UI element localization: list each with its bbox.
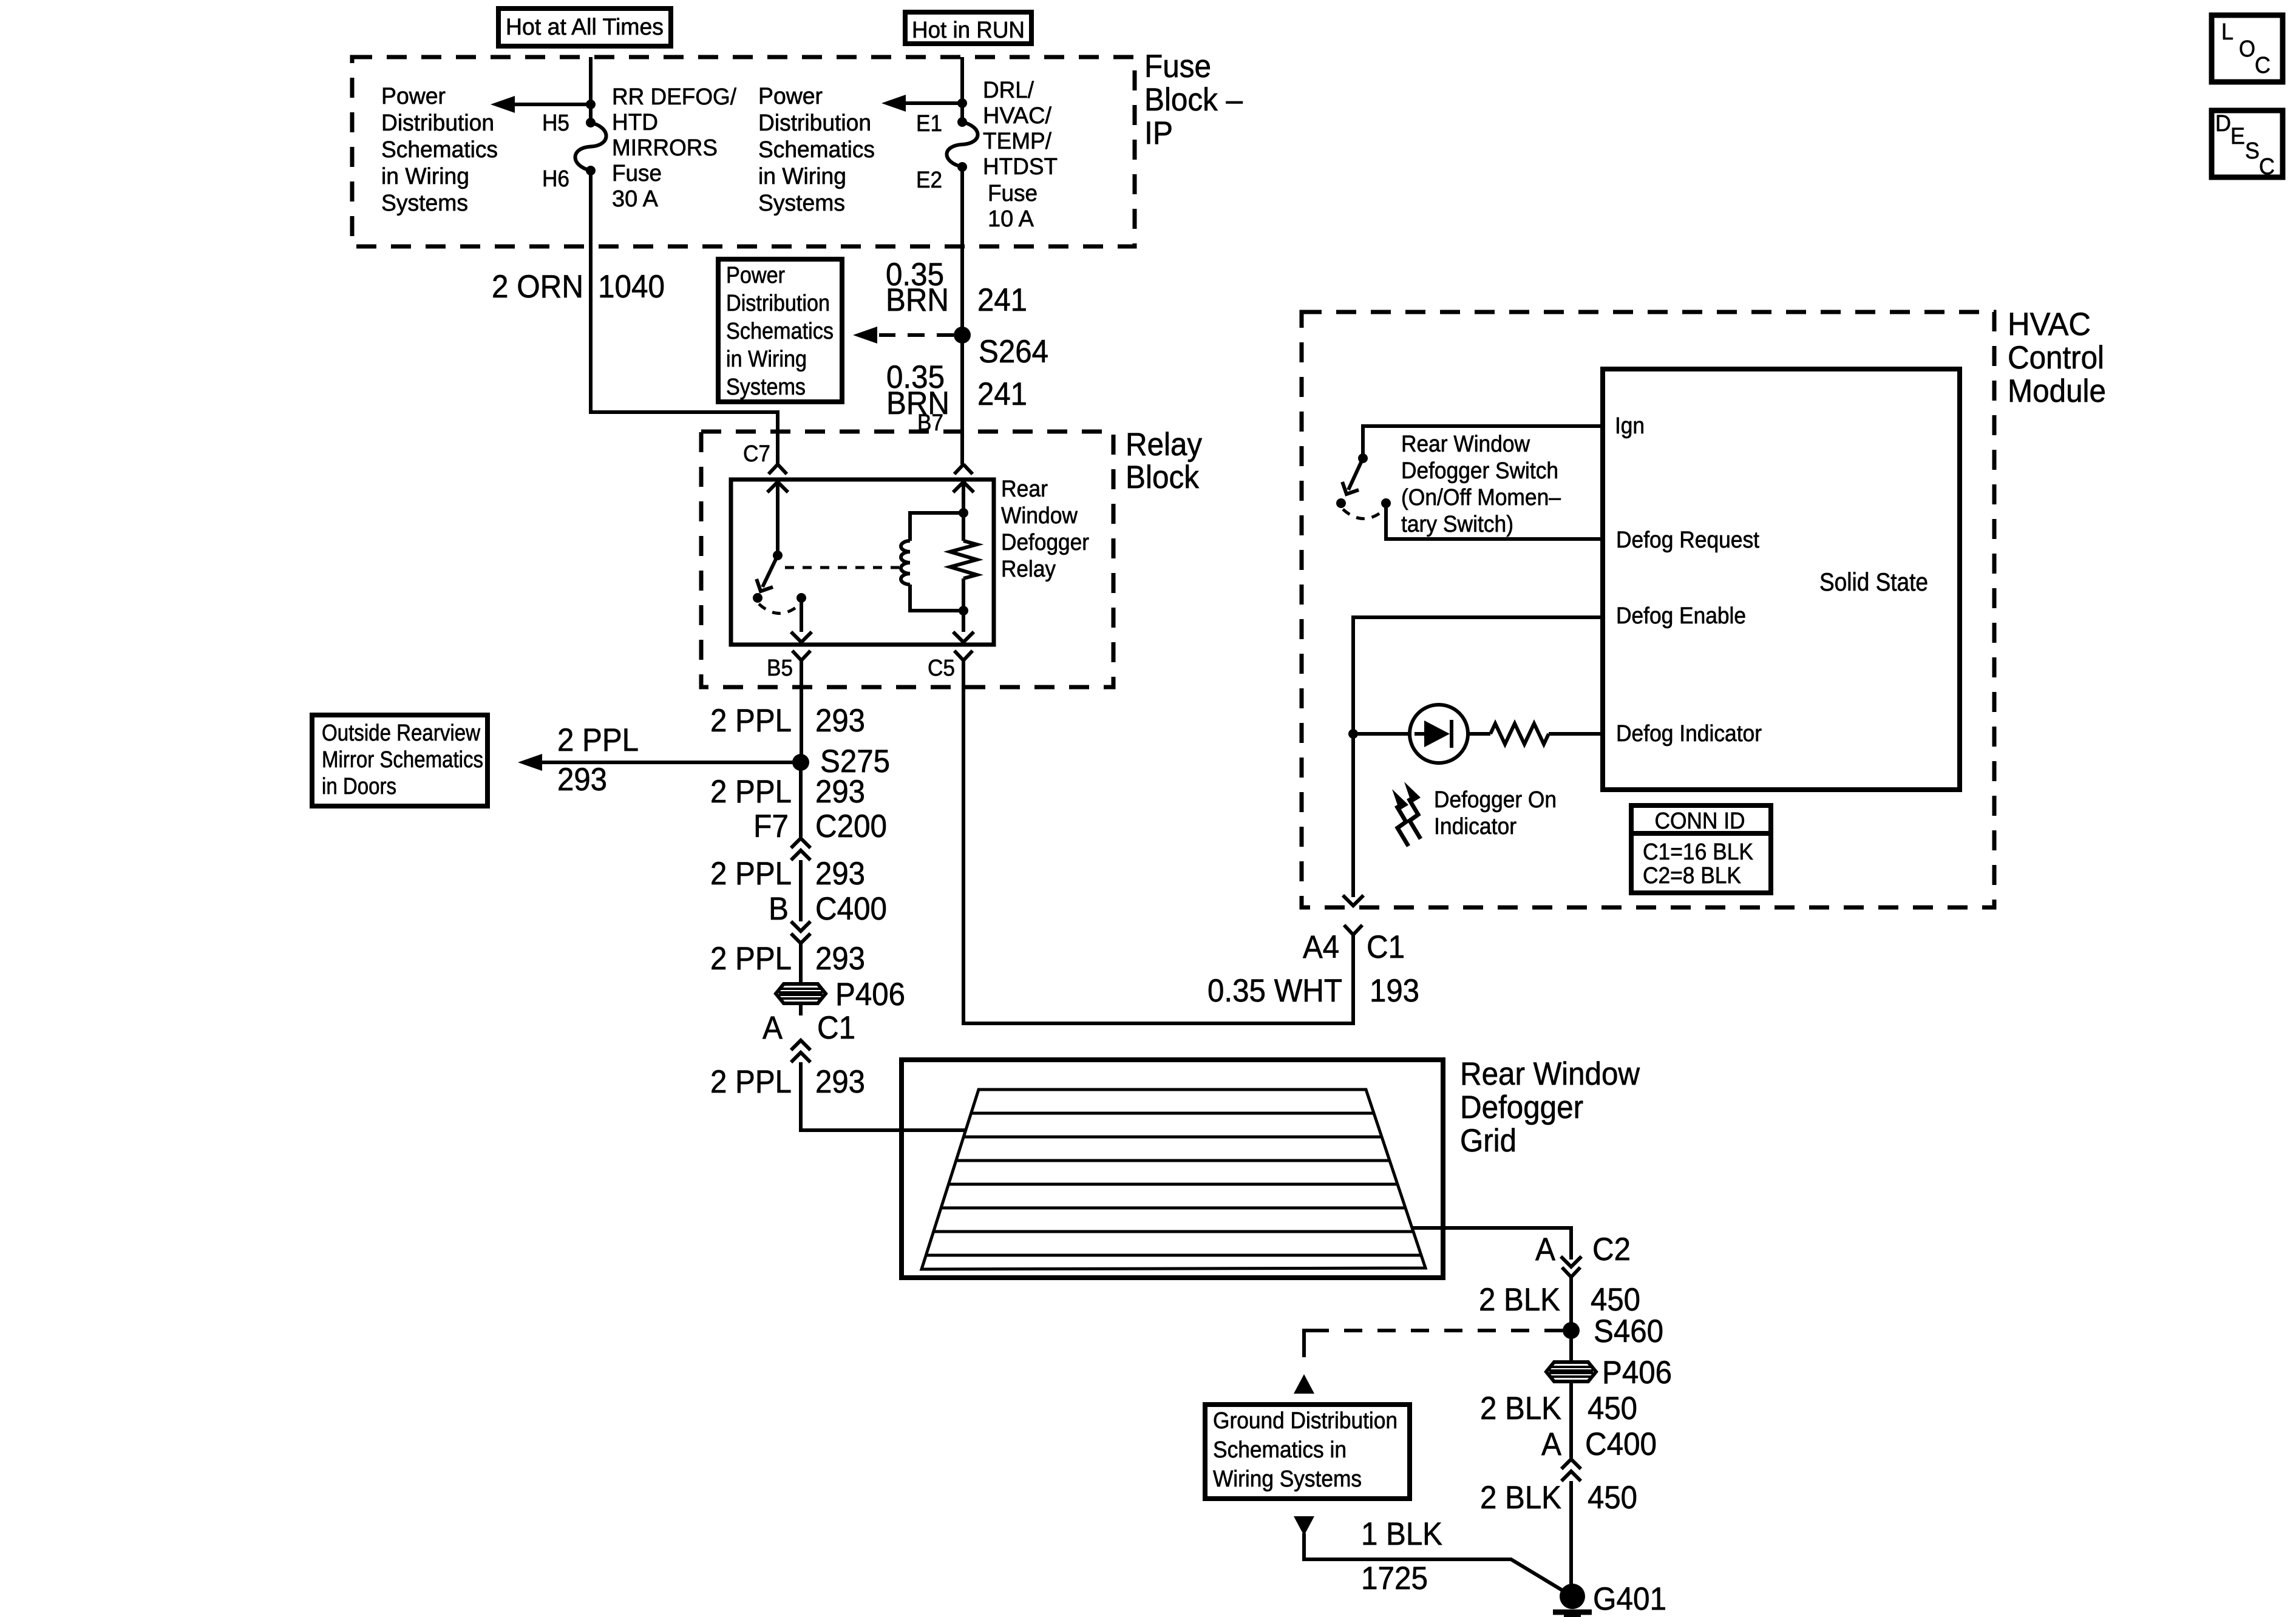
- connector C200: [791, 838, 810, 860]
- arrow out of relay at C5: [953, 611, 974, 642]
- svg-text:Relay: Relay: [1126, 427, 1202, 463]
- svg-text:B: B: [769, 891, 789, 927]
- connector C400: [791, 921, 810, 943]
- splice S275: [792, 754, 809, 771]
- arrow out of ground distribution reference: [1294, 1516, 1314, 1536]
- svg-text:2 PPL: 2 PPL: [710, 774, 792, 810]
- svg-text:O: O: [2239, 36, 2255, 62]
- svg-text:1725: 1725: [1361, 1561, 1428, 1596]
- label C200: [815, 808, 887, 844]
- label 2 BLK (1): [1479, 1282, 1560, 1318]
- label 2 PPL (branch): [557, 722, 639, 758]
- relay switch arm: [753, 555, 778, 595]
- pin E1: [916, 111, 942, 137]
- note text: Power Distribution Schematics in Wiring Systems (middle): [758, 84, 875, 216]
- dashed arrow from S264 to Power Distribution box: [853, 327, 954, 344]
- svg-text:Rear Window: Rear Window: [1401, 432, 1530, 457]
- arrow out of HVAC at A4: [1343, 895, 1364, 906]
- svg-text:Grid: Grid: [1460, 1123, 1517, 1159]
- svg-text:HVAC/: HVAC/: [983, 103, 1051, 129]
- relay coil junction (bottom): [959, 606, 968, 615]
- pin A4: [1303, 929, 1339, 965]
- wire from Hot at All Times into fuse block: [589, 57, 593, 104]
- pin A (C400 right): [1541, 1426, 1562, 1462]
- arrow to Power Distribution Schematics (middle): [881, 95, 959, 112]
- relay switch contact (to B5): [796, 593, 806, 603]
- label 2 PPL (3): [710, 856, 792, 892]
- svg-text:Solid State: Solid State: [1819, 568, 1928, 596]
- svg-text:H5: H5: [542, 110, 569, 136]
- label Rear Window Defogger Relay: [1001, 476, 1089, 582]
- svg-text:C400: C400: [1585, 1426, 1657, 1462]
- svg-text:Defog Enable: Defog Enable: [1616, 603, 1746, 629]
- relay K1 box: [731, 480, 994, 645]
- svg-text:293: 293: [815, 856, 865, 892]
- svg-text:Module: Module: [2008, 373, 2106, 409]
- wire through P406 (right): [1569, 1362, 1573, 1396]
- svg-text:Power: Power: [726, 263, 785, 288]
- relay coil: [901, 513, 961, 611]
- svg-text:10 A: 10 A: [988, 206, 1034, 232]
- svg-text:in Wiring: in Wiring: [758, 164, 846, 189]
- pin H5: [542, 110, 569, 136]
- ground G401: [1553, 1584, 1592, 1616]
- splice S264: [954, 327, 971, 344]
- pass-through grommet P406 (left): [776, 984, 826, 1003]
- svg-text:Defogger Switch: Defogger Switch: [1401, 458, 1558, 484]
- fuse F2 text: DRL/ HVAC/ TEMP/ HTDST Fuse 10 A: [983, 78, 1058, 232]
- relay actuation dashed link: [785, 566, 899, 569]
- label 0.35 WHT: [1207, 973, 1342, 1009]
- svg-text:C1: C1: [1367, 929, 1405, 965]
- fuse F2: DRL/HVAC/TEMP/HTDST Fuse 10 A: [947, 103, 978, 172]
- pin H6: [542, 166, 569, 192]
- svg-text:A4: A4: [1303, 929, 1339, 965]
- wire C1 to grid: [801, 1062, 966, 1130]
- label Fuse Block - IP: [1144, 49, 1243, 151]
- svg-text:450: 450: [1591, 1282, 1640, 1318]
- svg-text:in Doors: in Doors: [322, 774, 396, 799]
- Ign wire: [1363, 426, 1603, 454]
- connector at C2: [1562, 1267, 1580, 1277]
- svg-text:Defog Indicator: Defog Indicator: [1616, 721, 1762, 747]
- svg-text:E: E: [2230, 124, 2245, 149]
- svg-text:Defogger: Defogger: [1001, 530, 1089, 555]
- wire grid to C2: [1412, 1228, 1571, 1259]
- svg-text:Block –: Block –: [1144, 82, 1243, 118]
- pin label Ign: [1615, 413, 1645, 439]
- label circuit 193: [1370, 973, 1419, 1009]
- svg-text:Rear: Rear: [1001, 476, 1048, 502]
- svg-text:E1: E1: [916, 111, 942, 137]
- connector C400 (right): [1561, 1459, 1581, 1481]
- junction at defog indicator: [1348, 729, 1358, 739]
- svg-text:193: 193: [1370, 973, 1419, 1009]
- label 2 PPL (4): [710, 941, 792, 977]
- wire C2 to S460: [1569, 1277, 1573, 1331]
- defogger switch pivot: [1358, 453, 1368, 463]
- label S460: [1594, 1314, 1663, 1349]
- label S264: [979, 334, 1048, 370]
- svg-text:Control: Control: [2008, 340, 2104, 376]
- label 293 (3): [815, 856, 865, 892]
- defogger switch contact (left): [1336, 498, 1346, 508]
- svg-text:Hot in RUN: Hot in RUN: [912, 18, 1025, 43]
- svg-text:450: 450: [1588, 1480, 1637, 1516]
- wire 1040 from H6 to relay C7: [591, 171, 778, 464]
- defogger switch arm: [1339, 458, 1363, 498]
- pin C5: [928, 656, 955, 681]
- svg-text:2 BLK: 2 BLK: [1479, 1282, 1560, 1318]
- pin B7: [917, 410, 943, 436]
- label P406 (right): [1602, 1355, 1672, 1391]
- svg-text:293: 293: [557, 762, 607, 798]
- svg-text:(On/Off Momen–: (On/Off Momen–: [1401, 485, 1561, 510]
- pin B (C400): [769, 891, 789, 927]
- label P406 (left): [835, 977, 905, 1012]
- svg-text:E2: E2: [916, 168, 942, 193]
- label C1 (A4): [1367, 929, 1405, 965]
- svg-text:H6: H6: [542, 166, 569, 192]
- svg-text:A: A: [763, 1010, 783, 1046]
- svg-text:Ign: Ign: [1615, 413, 1645, 439]
- DESC reference box: [2212, 110, 2283, 180]
- svg-text:Distribution: Distribution: [381, 110, 494, 136]
- svg-text:C: C: [2255, 53, 2271, 78]
- label C400 (right): [1585, 1426, 1657, 1462]
- label C2: [1592, 1232, 1631, 1267]
- Defog Request wire: [1386, 503, 1603, 539]
- svg-text:2 BLK: 2 BLK: [1480, 1480, 1561, 1516]
- svg-text:293: 293: [815, 941, 865, 977]
- LOC reference box: [2212, 15, 2283, 82]
- fuse F1: RR DEFOG/HTD MIRRORS Fuse 30 A: [576, 104, 606, 175]
- defogger on indicator lamp symbol: [1392, 782, 1421, 846]
- svg-text:30 A: 30 A: [612, 186, 659, 212]
- Fuse Block - IP dashed box: [352, 57, 1135, 246]
- svg-text:A: A: [1535, 1232, 1556, 1267]
- svg-text:1040: 1040: [598, 269, 665, 305]
- svg-text:IP: IP: [1144, 115, 1173, 151]
- relay resistor: [950, 513, 977, 611]
- svg-text:Systems: Systems: [381, 191, 468, 216]
- junction at E1 feed: [957, 98, 967, 108]
- fuse F1 text: RR DEFOG/ HTD MIRRORS Fuse 30 A: [612, 84, 736, 212]
- svg-text:C7: C7: [743, 441, 770, 467]
- Defog Enable wire: [1353, 617, 1603, 734]
- svg-text:0.35 WHT: 0.35 WHT: [1207, 973, 1342, 1009]
- label Relay Block: [1126, 427, 1202, 495]
- svg-text:RR DEFOG/: RR DEFOG/: [612, 84, 736, 110]
- svg-text:1 BLK: 1 BLK: [1361, 1516, 1442, 1552]
- label circuit 1725: [1361, 1561, 1428, 1596]
- label 293 (1): [815, 703, 865, 739]
- label 2 PPL (1): [710, 703, 792, 739]
- svg-text:Mirror Schematics: Mirror Schematics: [322, 747, 483, 773]
- svg-text:C2: C2: [1592, 1232, 1631, 1267]
- svg-text:HTD: HTD: [612, 110, 658, 135]
- wire S275 to C200: [799, 762, 803, 837]
- wire through P406: [799, 983, 803, 1015]
- label Solid State: [1819, 568, 1928, 596]
- label 2 PPL (5): [710, 1064, 792, 1100]
- svg-text:Schematics: Schematics: [726, 319, 834, 344]
- svg-text:Relay: Relay: [1001, 557, 1056, 582]
- pin label Defog Indicator: [1616, 721, 1762, 747]
- svg-text:C1: C1: [817, 1010, 855, 1046]
- wire B5 to S275: [800, 660, 803, 762]
- svg-text:Outside Rearview: Outside Rearview: [322, 720, 480, 746]
- label 2 BLK (3): [1480, 1480, 1561, 1516]
- arrow into ground distribution reference: [1294, 1374, 1314, 1394]
- label 450 (2): [1588, 1391, 1637, 1426]
- svg-text:S460: S460: [1594, 1314, 1663, 1349]
- svg-text:B7: B7: [917, 410, 943, 436]
- pin E2: [916, 168, 942, 193]
- svg-text:C200: C200: [815, 808, 887, 844]
- svg-text:S264: S264: [979, 334, 1048, 370]
- svg-text:2 ORN: 2 ORN: [492, 269, 583, 305]
- label circuit 241 (lower): [977, 376, 1027, 412]
- connector at C7: [769, 464, 787, 474]
- svg-text:2 PPL: 2 PPL: [557, 722, 639, 758]
- svg-text:Power: Power: [381, 84, 446, 109]
- label 1 BLK: [1361, 1516, 1442, 1552]
- svg-text:Rear Window: Rear Window: [1460, 1056, 1640, 1092]
- wire 193 from C5 to A4: [963, 660, 1353, 1023]
- label 293 (2): [815, 774, 865, 810]
- wire defog enable to A4: [1351, 734, 1355, 897]
- label 0.35 BRN (lower): [886, 359, 949, 421]
- label C400: [815, 891, 887, 927]
- relay switch contact (NO left): [753, 593, 763, 603]
- HVAC Control Module dashed box: [1302, 312, 1994, 907]
- svg-text:Schematics: Schematics: [758, 137, 875, 163]
- svg-text:C5: C5: [928, 656, 955, 681]
- label 450 (3): [1588, 1480, 1637, 1516]
- svg-text:MIRRORS: MIRRORS: [612, 135, 718, 161]
- svg-text:Power: Power: [758, 84, 823, 109]
- svg-text:Distribution: Distribution: [758, 110, 871, 136]
- relay switch pivot: [773, 551, 783, 560]
- svg-text:Hot at All Times: Hot at All Times: [506, 15, 664, 40]
- svg-text:Fuse: Fuse: [612, 161, 662, 186]
- Rear Window Defogger Grid box: [902, 1060, 1443, 1278]
- pin F7: [753, 808, 789, 844]
- label HVAC Control Module: [2008, 307, 2106, 409]
- connector at B7: [954, 464, 973, 474]
- wire S460 to P406: [1569, 1331, 1573, 1362]
- svg-text:in Wiring: in Wiring: [381, 164, 469, 189]
- relay coil junction (top): [959, 508, 968, 518]
- svg-text:Systems: Systems: [758, 191, 845, 216]
- svg-text:in Wiring: in Wiring: [726, 347, 807, 372]
- wire 1725 to G401: [1304, 1533, 1569, 1595]
- svg-text:TEMP/: TEMP/: [983, 129, 1051, 154]
- pin B5: [767, 656, 793, 681]
- connector C1: [791, 1040, 810, 1062]
- svg-text:Distribution: Distribution: [726, 291, 830, 316]
- dashed wire S460 to ground distribution: [1304, 1331, 1563, 1371]
- note box: Outside Rearview Mirror Schematics in Doors: [312, 715, 487, 806]
- label 293 (4): [815, 941, 865, 977]
- svg-text:293: 293: [815, 703, 865, 739]
- svg-text:293: 293: [815, 1064, 865, 1100]
- wire 241 from E2 to relay B7: [960, 167, 964, 464]
- CONN ID table: [1629, 805, 1773, 893]
- indicator resistor: [1468, 724, 1603, 744]
- pin A (C1): [763, 1010, 783, 1046]
- label 2 PPL (2): [710, 774, 792, 810]
- svg-text:A: A: [1541, 1426, 1562, 1462]
- svg-text:HVAC: HVAC: [2008, 307, 2091, 342]
- defogger switch dashed arc: [1343, 509, 1385, 519]
- svg-text:Window: Window: [1001, 503, 1078, 529]
- wire from Hot in RUN into fuse block: [960, 57, 964, 103]
- svg-text:Fuse: Fuse: [1144, 49, 1211, 84]
- svg-text:G401: G401: [1593, 1581, 1666, 1617]
- svg-text:D: D: [2215, 111, 2231, 137]
- svg-text:Defog Request: Defog Request: [1616, 527, 1759, 553]
- label 2 BLK (2): [1480, 1391, 1561, 1426]
- defogger switch contact (right): [1381, 498, 1391, 508]
- label Defogger On Indicator: [1434, 787, 1557, 839]
- svg-text:2 PPL: 2 PPL: [710, 941, 792, 977]
- solid state module box: [1603, 369, 1960, 790]
- svg-text:L: L: [2221, 19, 2233, 45]
- svg-text:293: 293: [815, 774, 865, 810]
- svg-text:450: 450: [1588, 1391, 1637, 1426]
- svg-text:P406: P406: [835, 977, 905, 1012]
- label Rear Window Defogger Switch: [1401, 432, 1561, 537]
- arrow to Power Distribution Schematics (left): [491, 96, 588, 113]
- svg-text:CONN ID: CONN ID: [1655, 808, 1745, 834]
- svg-text:C400: C400: [815, 891, 887, 927]
- label 450 (1): [1591, 1282, 1640, 1318]
- svg-text:P406: P406: [1602, 1355, 1672, 1391]
- label C1: [817, 1010, 855, 1046]
- note box: Ground Distribution Schematics in Wiring Systems: [1205, 1405, 1410, 1499]
- wire C400 to G401: [1569, 1481, 1573, 1587]
- svg-text:DRL/: DRL/: [983, 78, 1034, 103]
- arrow out of relay at B5: [791, 598, 812, 642]
- wire C400 to P406: [799, 943, 803, 983]
- svg-text:C1=16 BLK: C1=16 BLK: [1643, 839, 1753, 865]
- Relay Block dashed box: [701, 432, 1113, 687]
- svg-text:241: 241: [977, 282, 1027, 318]
- indicator LED: [1353, 705, 1468, 763]
- svg-text:241: 241: [977, 376, 1027, 412]
- pass-through grommet P406 (right): [1546, 1362, 1596, 1381]
- svg-text:C: C: [2259, 154, 2275, 180]
- svg-text:C2=8 BLK: C2=8 BLK: [1643, 863, 1741, 889]
- wire P406 to C400: [1569, 1383, 1573, 1458]
- arrow out of grid at C2: [1561, 1256, 1581, 1267]
- svg-text:Defogger: Defogger: [1460, 1090, 1583, 1125]
- connector at C5: [954, 651, 973, 660]
- pin A (C2): [1535, 1232, 1556, 1267]
- svg-text:Block: Block: [1126, 459, 1199, 495]
- arrow into relay at B7: [953, 482, 974, 513]
- splice S460: [1563, 1322, 1580, 1339]
- note box: Power Distribution Schematics in Wiring Systems: [718, 259, 842, 402]
- arrow to Outside Rearview Mirror Schematics: [518, 754, 795, 771]
- label circuit 1040: [598, 269, 665, 305]
- label S275: [820, 744, 890, 779]
- svg-text:2 PPL: 2 PPL: [710, 703, 792, 739]
- svg-text:Systems: Systems: [726, 375, 806, 400]
- label 293 (5): [815, 1064, 865, 1100]
- svg-text:B5: B5: [767, 656, 793, 681]
- svg-text:Fuse: Fuse: [988, 181, 1038, 206]
- arrow into relay at C7: [767, 482, 788, 555]
- connector at A4: [1344, 925, 1362, 935]
- note text: Power Distribution Schematics in Wiring Systems (left): [381, 84, 498, 216]
- svg-text:Schematics in: Schematics in: [1213, 1437, 1347, 1463]
- svg-text:2 PPL: 2 PPL: [710, 856, 792, 892]
- label Rear Window Defogger Grid: [1460, 1056, 1640, 1159]
- connector at B5: [792, 651, 810, 660]
- svg-text:2 BLK: 2 BLK: [1480, 1391, 1561, 1426]
- svg-text:S: S: [2245, 138, 2260, 164]
- svg-text:Schematics: Schematics: [381, 137, 498, 163]
- svg-text:tary Switch): tary Switch): [1401, 512, 1513, 537]
- label 2 ORN: [492, 269, 583, 305]
- svg-text:BRN: BRN: [886, 282, 949, 318]
- svg-text:Defogger On: Defogger On: [1434, 787, 1557, 813]
- junction at H5 feed: [586, 100, 596, 109]
- pin C7: [743, 441, 770, 467]
- svg-text:HTDST: HTDST: [983, 154, 1058, 180]
- svg-text:2 PPL: 2 PPL: [710, 1064, 792, 1100]
- svg-text:Ground Distribution: Ground Distribution: [1213, 1408, 1398, 1434]
- label 0.35 BRN (upper): [886, 257, 949, 318]
- svg-text:F7: F7: [753, 808, 789, 844]
- defogger grid element (trapezoid with grid lines): [922, 1090, 1425, 1269]
- power label box: Hot at All Times: [498, 8, 671, 46]
- label 293 (branch): [557, 762, 607, 798]
- svg-text:Wiring Systems: Wiring Systems: [1213, 1466, 1362, 1492]
- svg-text:Indicator: Indicator: [1434, 814, 1517, 839]
- pin label Defog Enable: [1616, 603, 1746, 629]
- relay switch dashed arc: [759, 604, 800, 614]
- pin label Defog Request: [1616, 527, 1759, 553]
- wire C200 to C400: [799, 860, 803, 921]
- label circuit 241 (upper): [977, 282, 1027, 318]
- power label box: Hot in RUN: [905, 12, 1031, 44]
- label G401: [1593, 1581, 1666, 1617]
